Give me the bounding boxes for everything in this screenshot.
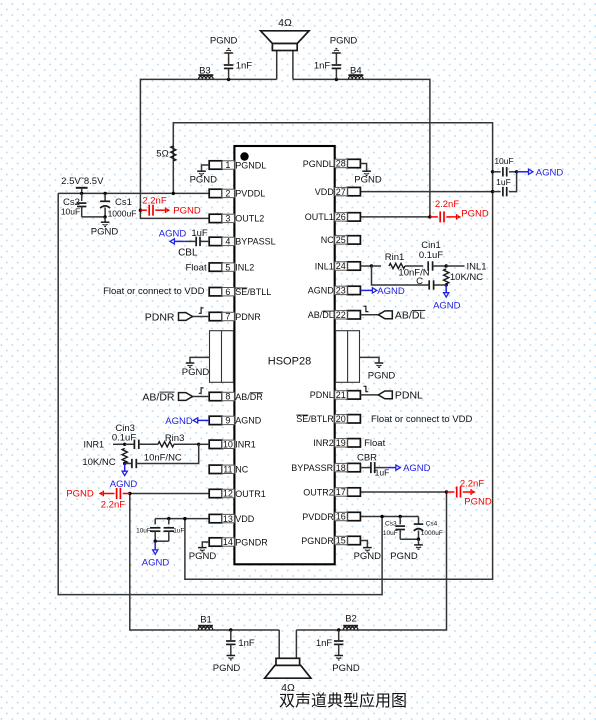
ground PGND below Cs1 <box>104 217 106 222</box>
svg-text:1uF: 1uF <box>375 467 390 477</box>
svg-text:Float: Float <box>185 263 206 274</box>
pin 5 box <box>209 263 222 271</box>
resistor 10K/NC INR1 <box>122 448 127 463</box>
svg-text:10uF: 10uF <box>383 530 398 537</box>
wire Cs2 Cs1 bottom rail <box>82 216 105 218</box>
svg-text:PGND: PGND <box>464 496 492 507</box>
wire bottom speaker left terminal <box>278 630 280 658</box>
svg-text:1000uF: 1000uF <box>421 530 443 537</box>
svg-text:AGND: AGND <box>159 228 187 239</box>
svg-text:AGND: AGND <box>308 286 335 296</box>
capacitor 2.2nF snubber top-left <box>139 209 142 212</box>
svg-text:1000uF: 1000uF <box>108 209 137 219</box>
pin 10 box <box>209 440 222 448</box>
capacitor Cs3 10uF <box>399 515 402 518</box>
pin 3 box <box>209 214 222 222</box>
ground PGND below Cs4 <box>418 539 420 544</box>
svg-text:BYPASSR: BYPASSR <box>291 463 333 473</box>
svg-text:0.1uF: 0.1uF <box>112 432 136 443</box>
wire top speaker left terminal <box>276 51 278 80</box>
svg-text:OUTR2: OUTR2 <box>303 487 334 497</box>
svg-text:4Ω: 4Ω <box>281 682 295 694</box>
svg-text:5Ω: 5Ω <box>156 149 168 160</box>
terminal AGND arrow top-right <box>517 171 529 173</box>
capacitor Cs2 10uF <box>81 193 83 201</box>
svg-text:AGND: AGND <box>110 479 138 490</box>
svg-text:AGND: AGND <box>536 167 564 178</box>
wire PVDD net: rail down-left, across bottom, up to PVDDR pin16 <box>58 193 382 594</box>
svg-text:1nF: 1nF <box>236 60 253 71</box>
terminal AB/DL flag pin22 <box>360 314 378 316</box>
svg-text:26: 26 <box>336 212 346 222</box>
ground PGND below 1nF bottom-right <box>334 655 343 657</box>
svg-text:PGND: PGND <box>91 226 119 237</box>
svg-text:SE: SE <box>296 414 308 424</box>
svg-text:PGND: PGND <box>461 209 489 220</box>
pin 25 box <box>347 236 360 244</box>
svg-text:PGND: PGND <box>368 370 396 381</box>
ground PGND heat slug left <box>190 357 210 362</box>
node 5-ohm bottom junction <box>172 192 175 195</box>
heat slug right <box>336 331 360 383</box>
capacitor 2.2nF snubber bottom-left <box>128 492 131 495</box>
pin 14 box <box>209 538 222 546</box>
svg-text:PGNDR: PGNDR <box>301 536 334 546</box>
svg-text:3: 3 <box>225 214 230 224</box>
svg-text:Cs3: Cs3 <box>385 521 397 528</box>
wire VDD pin13 rail <box>155 518 209 520</box>
svg-text:10uF: 10uF <box>494 156 513 166</box>
wire OUTR1 net: pin12 left, down, bottom-left run to speaker <box>130 494 279 631</box>
svg-text:PGND: PGND <box>173 206 201 217</box>
pin 11 box <box>209 465 222 473</box>
svg-text:AGND: AGND <box>377 286 405 297</box>
node Cs1 bottom junction <box>103 215 106 218</box>
svg-text:5: 5 <box>225 262 230 272</box>
pin 8 box <box>209 392 222 400</box>
svg-text:AB/: AB/ <box>308 310 323 320</box>
svg-text:PDNR: PDNR <box>145 311 175 323</box>
wire VDD pin27 to right edge <box>360 191 492 193</box>
svg-text:2.2nF: 2.2nF <box>142 196 166 207</box>
svg-text:/BTLR: /BTLR <box>308 414 334 424</box>
svg-text:DR: DR <box>159 391 175 403</box>
pin 2 box <box>209 189 222 197</box>
heat slug left <box>210 331 234 383</box>
svg-text:AGND: AGND <box>235 416 262 426</box>
svg-text:PGND: PGND <box>210 35 238 46</box>
svg-text:13: 13 <box>223 514 233 524</box>
capacitor CBR 1uF pin18 <box>360 467 370 469</box>
svg-text:22: 22 <box>336 310 346 320</box>
svg-text:19: 19 <box>336 438 346 448</box>
svg-text:PDNL: PDNL <box>395 390 423 402</box>
svg-text:C: C <box>416 276 423 287</box>
svg-text:B1: B1 <box>200 615 212 626</box>
svg-text:PDNL: PDNL <box>310 390 334 400</box>
resistor Rin1 <box>372 265 382 267</box>
svg-text:2.2nF: 2.2nF <box>101 499 125 510</box>
svg-text:双声道典型应用图: 双声道典型应用图 <box>279 691 407 710</box>
wire supply rail PVDDL to pin2 <box>58 192 209 194</box>
svg-text:PGND: PGND <box>190 174 218 185</box>
pin 26 box <box>347 213 360 221</box>
capacitor Cs1 1000uF polarized <box>103 192 106 195</box>
svg-text:OUTL1: OUTL1 <box>305 212 334 222</box>
capacitor 2.2nF snubber top-right <box>428 215 431 218</box>
ground PGND above 1nF top-right <box>332 52 341 54</box>
pin 22 box <box>347 311 360 319</box>
svg-text:23: 23 <box>336 286 346 296</box>
pin 28 box <box>347 159 360 167</box>
resistor 5-ohm <box>171 146 176 161</box>
node Rin3 junction <box>197 443 200 446</box>
svg-text:Cs1: Cs1 <box>115 197 132 208</box>
svg-text:2.2nF: 2.2nF <box>435 199 459 210</box>
supply bar symbol <box>76 187 88 189</box>
pin 17 box <box>347 488 360 496</box>
pin 23 box <box>347 286 360 294</box>
pin1 marker dot <box>240 152 248 160</box>
svg-text:1uF: 1uF <box>191 228 208 239</box>
node Cs4 bottom junction <box>417 538 420 541</box>
svg-text:BYPASSL: BYPASSL <box>235 237 275 247</box>
node supply bar junction <box>80 192 83 195</box>
svg-text:OUTL2: OUTL2 <box>235 214 264 224</box>
svg-text:21: 21 <box>336 390 346 400</box>
terminal AGND arrow below pin13 caps <box>154 541 156 549</box>
op-amp U1 HSOP28 body <box>234 146 334 564</box>
wire top-left OUTL2 net: corner to speaker <box>140 79 276 218</box>
node INR1 junction <box>113 443 125 445</box>
svg-text:AB/: AB/ <box>142 391 159 403</box>
svg-text:AB/: AB/ <box>235 392 250 402</box>
svg-text:2: 2 <box>225 189 230 199</box>
node INL1 junction <box>445 264 448 267</box>
svg-text:Rin3: Rin3 <box>165 433 185 444</box>
wire bottom speaker right terminal <box>295 630 297 658</box>
resistor 10K/NC INL1 <box>444 269 449 284</box>
svg-text:DR: DR <box>250 392 263 402</box>
svg-text:AGND: AGND <box>165 416 193 427</box>
node 10K bottom junction <box>445 283 448 286</box>
svg-text:10K/NC: 10K/NC <box>450 272 483 283</box>
node B1-1nF junction <box>229 628 232 631</box>
svg-text:PGNDL: PGNDL <box>303 159 334 169</box>
capacitor 10nF/NC <box>125 463 132 465</box>
svg-text:9: 9 <box>225 416 230 426</box>
pin 20 box <box>347 415 360 423</box>
inductor B4 ferrite bead <box>349 76 363 79</box>
svg-text:INR1: INR1 <box>84 440 105 450</box>
svg-text:20: 20 <box>336 414 346 424</box>
svg-text:/BTLL: /BTLL <box>247 287 271 297</box>
capacitor 2.2nF snubber bottom-right <box>445 490 448 493</box>
terminal AGND arrow below 10K INL1 <box>445 285 447 292</box>
svg-text:18: 18 <box>336 463 346 473</box>
inductor B1 ferrite bead <box>198 627 212 630</box>
terminal AGND arrow pin23 <box>360 289 372 291</box>
node caps bottom junction <box>154 540 157 543</box>
capacitor 1nF top-right <box>335 78 338 81</box>
svg-text:VDD: VDD <box>235 514 255 524</box>
capacitor 10uF pin13 <box>154 519 156 525</box>
svg-text:Rin1: Rin1 <box>385 252 405 263</box>
pin 7 box <box>209 312 222 320</box>
svg-text:25: 25 <box>336 235 346 245</box>
svg-text:PGND: PGND <box>182 367 210 378</box>
svg-text:CBL: CBL <box>178 247 198 258</box>
pin 16 box <box>347 512 360 520</box>
svg-text:VDD: VDD <box>315 187 335 197</box>
svg-text:PGNDR: PGNDR <box>235 537 268 547</box>
capacitor 1nF top-left <box>228 69 230 80</box>
svg-text:12: 12 <box>223 489 233 499</box>
pin 27 box <box>347 187 360 195</box>
inductor B2 ferrite bead <box>343 627 357 630</box>
svg-text:INL2: INL2 <box>235 262 254 272</box>
svg-text:AGND: AGND <box>433 300 461 311</box>
svg-text:1nF: 1nF <box>238 638 255 649</box>
terminal PDNL flag pin21 <box>360 394 378 396</box>
svg-text:PGND: PGND <box>332 663 360 674</box>
speaker top 4-ohm <box>261 31 309 44</box>
svg-text:PVDDL: PVDDL <box>235 189 265 199</box>
svg-text:PGND: PGND <box>330 35 358 46</box>
capacitor Cin3 0.1uF <box>125 443 135 445</box>
wire top speaker right terminal <box>292 51 294 80</box>
svg-text:1nF: 1nF <box>316 638 333 649</box>
svg-text:INL1: INL1 <box>466 261 486 272</box>
ground PGND heat slug right <box>360 357 380 362</box>
pin 1 box <box>209 161 222 169</box>
svg-text:AGND: AGND <box>142 558 170 569</box>
svg-text:INR1: INR1 <box>235 440 256 450</box>
wire caps bottom rail <box>155 540 169 542</box>
resistor Rin3 <box>158 442 174 447</box>
capacitor 10uF VDD decouple <box>493 171 501 173</box>
svg-text:OUTR1: OUTR1 <box>235 489 266 499</box>
svg-text:10K/NC: 10K/NC <box>82 457 115 468</box>
svg-text:PGND: PGND <box>66 489 94 500</box>
svg-text:SE: SE <box>235 287 247 297</box>
capacitor 1uF VDD decouple <box>491 190 494 193</box>
node 10uF-1uF junction <box>515 170 518 173</box>
svg-text:NC: NC <box>235 465 248 475</box>
svg-text:1nF: 1nF <box>314 60 331 71</box>
svg-text:10uF: 10uF <box>136 527 151 534</box>
svg-text:1uF: 1uF <box>496 177 511 187</box>
svg-text:2.5V˜8.5V: 2.5V˜8.5V <box>61 176 104 187</box>
wire VDD net rectangle: 5-ohm top edge, right edge, bottom edge <box>173 123 492 580</box>
capacitor 1nF bottom-left <box>230 630 232 640</box>
capacitor 1nF bottom-right <box>337 628 340 631</box>
terminal AGND arrow below 10K INR1 <box>124 464 126 471</box>
ground PGND pin1 <box>202 165 210 171</box>
svg-text:PGND: PGND <box>189 551 217 562</box>
svg-text:PDNR: PDNR <box>235 312 261 322</box>
node 10K INR1 bottom junction <box>123 462 126 465</box>
svg-text:Float or connect to VDD: Float or connect to VDD <box>103 286 205 297</box>
svg-text:27: 27 <box>336 187 346 197</box>
node VDD 10uF junction <box>491 170 494 173</box>
svg-text:HSOP28: HSOP28 <box>268 356 311 368</box>
wire top-right OUTL1 net: speaker to pin26 <box>293 79 430 217</box>
ground PGND pin28 <box>360 164 366 171</box>
terminal AGND arrow pin18 <box>385 467 396 469</box>
pin 4 box <box>209 237 222 245</box>
svg-text:15: 15 <box>336 536 346 546</box>
svg-text:PGND: PGND <box>354 551 382 562</box>
svg-text:10: 10 <box>223 440 233 450</box>
node PVDD junction at pin16 rail <box>380 515 383 518</box>
svg-text:10nF/NC: 10nF/NC <box>144 452 182 463</box>
svg-text:AGND: AGND <box>403 463 431 474</box>
inductor B3 ferrite bead <box>199 76 213 79</box>
svg-text:1: 1 <box>225 160 230 170</box>
svg-text:PGND: PGND <box>390 551 418 562</box>
svg-text:INR2: INR2 <box>313 438 334 448</box>
svg-text:16: 16 <box>336 512 346 522</box>
svg-text:1uF: 1uF <box>173 527 184 534</box>
svg-text:CBR: CBR <box>357 452 377 463</box>
wire OUTR2 net: pin17 right, down, bottom-right run to speaker <box>296 492 446 630</box>
svg-text:17: 17 <box>336 487 346 497</box>
terminal PDNR flag pin7 <box>193 316 210 318</box>
svg-text:Float or connect to VDD: Float or connect to VDD <box>371 414 473 425</box>
svg-text:0.1uF: 0.1uF <box>419 250 443 261</box>
svg-text:PGND: PGND <box>354 174 382 185</box>
svg-text:6: 6 <box>225 287 230 297</box>
svg-text:NC: NC <box>321 235 334 245</box>
svg-text:24: 24 <box>336 261 346 271</box>
pin 9 box <box>209 416 222 424</box>
svg-text:8: 8 <box>225 392 230 402</box>
ground PGND pin14 <box>202 542 209 547</box>
pin 18 box <box>347 463 360 471</box>
ground PGND above 1nF top-left <box>224 52 233 54</box>
pin 12 box <box>209 489 222 497</box>
svg-text:4Ω: 4Ω <box>278 17 292 29</box>
svg-text:INL1: INL1 <box>315 261 334 271</box>
svg-text:Float: Float <box>364 438 385 449</box>
pin 19 box <box>347 439 360 447</box>
node INL1 pin junction <box>360 265 371 267</box>
terminal AGND arrow pin4 <box>174 240 185 242</box>
svg-text:11: 11 <box>223 465 232 475</box>
ground PGND pin15 <box>360 541 367 548</box>
pin 21 box <box>347 391 360 399</box>
wire to INL1 label <box>446 265 464 267</box>
wire PVDDR pin16 rail to Cs3 Cs4 <box>360 516 418 518</box>
capacitor 1uF pin13 <box>168 519 170 525</box>
svg-text:7: 7 <box>225 312 230 322</box>
svg-text:AB/: AB/ <box>395 310 412 322</box>
svg-text:B3: B3 <box>199 65 211 76</box>
capacitor Cs4 1000uF polarized <box>418 517 420 525</box>
terminal AGND arrow pin9 <box>198 419 210 421</box>
pin 6 box <box>209 288 222 296</box>
svg-text:14: 14 <box>223 537 233 547</box>
svg-text:2.2nF: 2.2nF <box>460 478 484 489</box>
pin 15 box <box>347 536 360 544</box>
svg-text:PVDDR: PVDDR <box>302 512 334 522</box>
svg-text:PGNDL: PGNDL <box>235 160 266 170</box>
ground PGND below 1nF bottom-left <box>227 655 236 657</box>
node VDD pin13 rail junctions <box>167 517 170 520</box>
svg-text:28: 28 <box>336 159 346 169</box>
pin 24 box <box>347 262 360 270</box>
svg-text:10nF/N: 10nF/N <box>398 267 429 278</box>
pin 13 box <box>209 514 222 522</box>
svg-text:DL: DL <box>322 310 334 320</box>
node B3-1nF junction <box>227 78 230 81</box>
terminal AB/DR flag pin8 <box>193 396 210 398</box>
wire Cs3 Cs4 bottom rail <box>400 538 418 540</box>
svg-text:PGND: PGND <box>213 663 241 674</box>
capacitor 10nF/N C <box>434 284 447 286</box>
capacitor Cin1 0.1uF <box>427 261 429 270</box>
svg-text:B2: B2 <box>345 614 357 625</box>
speaker bottom 4-ohm <box>276 658 300 665</box>
svg-text:Cs4: Cs4 <box>426 521 438 528</box>
svg-text:B4: B4 <box>350 65 362 76</box>
capacitor CBL 1uF pin4 <box>200 240 209 242</box>
svg-text:4: 4 <box>225 237 230 247</box>
svg-text:DL: DL <box>412 310 426 322</box>
svg-text:10uF: 10uF <box>61 206 80 216</box>
